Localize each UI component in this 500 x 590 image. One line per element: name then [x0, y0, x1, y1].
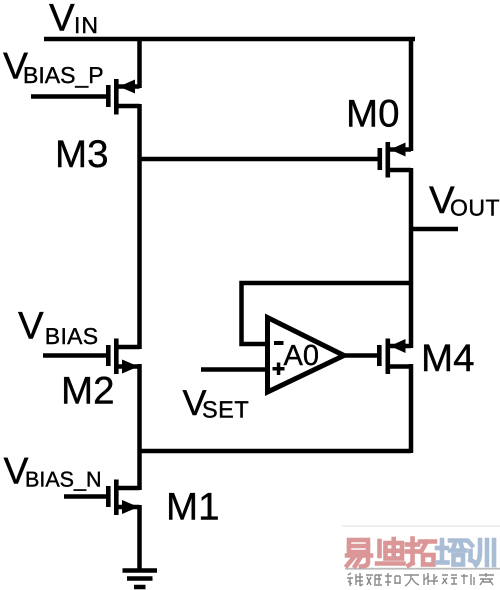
svg-text:A0: A0 — [284, 340, 319, 372]
svg-text:M4: M4 — [421, 337, 474, 380]
svg-text:BIAS_N: BIAS_N — [25, 468, 101, 492]
svg-text:M2: M2 — [61, 370, 114, 413]
svg-text:OUT: OUT — [450, 195, 500, 221]
svg-text:V: V — [49, 0, 75, 40]
svg-text:IN: IN — [74, 12, 99, 38]
svg-text:BIAS_P: BIAS_P — [23, 62, 104, 88]
svg-text:M0: M0 — [346, 93, 399, 136]
svg-text:M3: M3 — [55, 133, 108, 176]
svg-text:V: V — [18, 305, 44, 348]
svg-text:BIAS: BIAS — [45, 323, 99, 349]
svg-text:M1: M1 — [166, 486, 219, 529]
svg-text:SET: SET — [202, 397, 249, 423]
